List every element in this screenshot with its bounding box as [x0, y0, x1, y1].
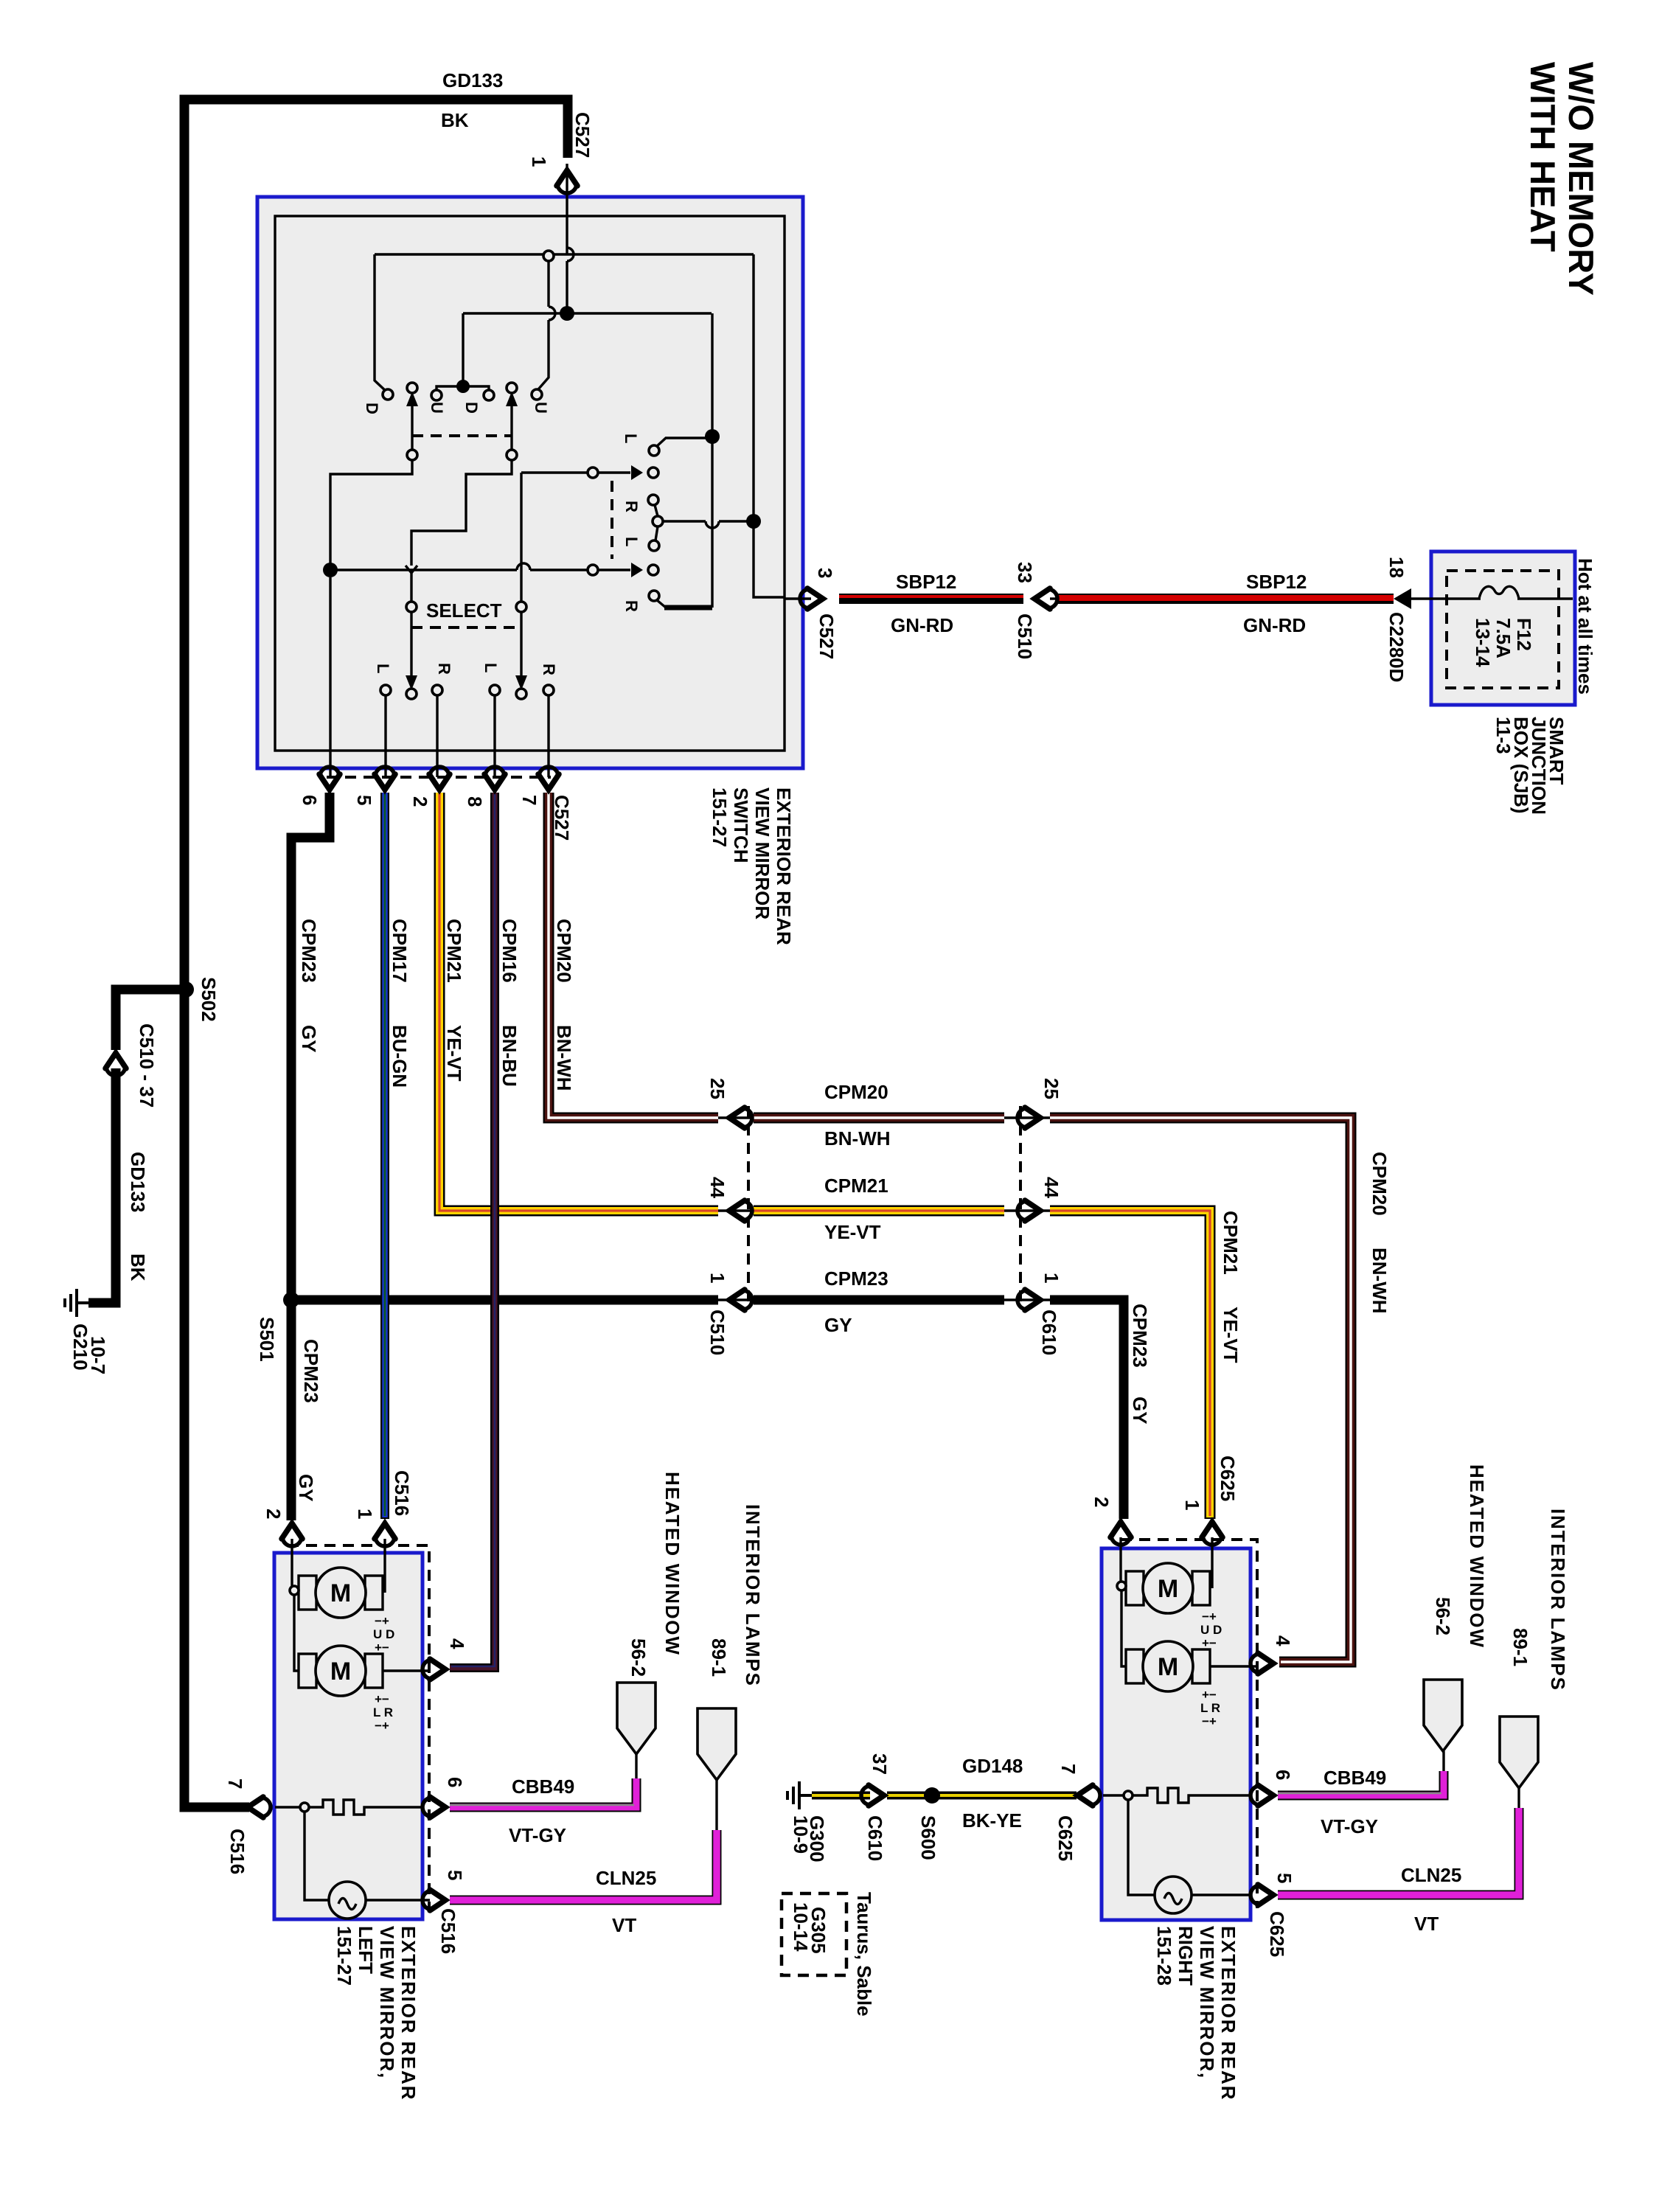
svg-text:10-9: 10-9 — [790, 1815, 812, 1854]
svg-text:BU-GN: BU-GN — [389, 1025, 411, 1088]
svg-text:S502: S502 — [198, 977, 220, 1022]
svg-text:HEATED WINDOW: HEATED WINDOW — [1466, 1464, 1488, 1649]
svg-text:25: 25 — [1040, 1078, 1062, 1099]
svg-text:8: 8 — [464, 796, 486, 807]
exterior rear view mirror switch box — [257, 197, 803, 768]
svg-text:VT-GY: VT-GY — [509, 1824, 566, 1846]
svg-text:BN-WH: BN-WH — [553, 1025, 575, 1091]
svg-text:GN-RD: GN-RD — [891, 614, 953, 636]
wire GD148 BK-YE ground G300 to S600 — [787, 1781, 812, 1809]
svg-text:7.5A: 7.5A — [1492, 618, 1514, 658]
thin wire rail A contact to U2 — [547, 261, 549, 307]
bridge U1-D2 — [437, 386, 489, 391]
svg-text:+−: +− — [375, 1692, 389, 1706]
svg-text:R: R — [540, 664, 558, 675]
svg-text:EXTERIOR REAR: EXTERIOR REAR — [397, 1926, 420, 2101]
wire CPM23 GY horizontal run to right mirror — [291, 1295, 718, 1305]
motor terminal contact — [290, 1586, 299, 1595]
svg-text:BK: BK — [127, 1253, 149, 1281]
pivot contact rail E — [653, 516, 663, 526]
svg-text:S600: S600 — [917, 1815, 939, 1860]
svg-text:CPM20: CPM20 — [1368, 1152, 1391, 1216]
svg-text:WITH HEAT: WITH HEAT — [1523, 62, 1562, 252]
smart junction box SJB — [1431, 552, 1575, 705]
L upper contact and lever — [649, 445, 659, 456]
heated window lamp symbol left — [617, 1683, 655, 1754]
svg-text:CPM20: CPM20 — [824, 1081, 888, 1103]
junction chevron at rail D — [406, 566, 417, 573]
svg-text:2: 2 — [1091, 1497, 1113, 1507]
svg-text:C625: C625 — [1217, 1455, 1239, 1501]
svg-text:151-27: 151-27 — [709, 787, 731, 847]
svg-text:C625: C625 — [1266, 1911, 1288, 1957]
hop over rail B — [549, 307, 555, 320]
L lower contact and lever — [649, 540, 659, 551]
wire select right stem / upper branch — [520, 473, 522, 602]
R upper contact and lever — [648, 495, 658, 505]
gang dashed row1 — [412, 434, 512, 437]
svg-text:151-28: 151-28 — [1153, 1926, 1175, 1986]
svg-text:U: U — [532, 402, 550, 414]
contact on rail A — [543, 251, 554, 261]
svg-text:CLN25: CLN25 — [1401, 1864, 1461, 1886]
svg-text:C510: C510 — [1014, 613, 1036, 659]
svg-text:6: 6 — [444, 1777, 466, 1787]
svg-text:4: 4 — [1272, 1635, 1294, 1646]
connector C625 pin2 — [1110, 1522, 1131, 1545]
svg-text:11-3: 11-3 — [1492, 717, 1514, 754]
svg-text:INTERIOR LAMPS: INTERIOR LAMPS — [742, 1504, 764, 1687]
svg-text:L: L — [622, 434, 640, 443]
svg-text:SBP12: SBP12 — [1246, 571, 1307, 593]
svg-text:56-2: 56-2 — [1432, 1597, 1454, 1635]
feed rail B to bridge — [462, 313, 464, 386]
svg-text:W/O MEMORY: W/O MEMORY — [1562, 62, 1601, 296]
motor U-D right — [1126, 1563, 1210, 1613]
svg-text:L R: L R — [373, 1705, 393, 1719]
svg-text:EXTERIOR REAR: EXTERIOR REAR — [773, 787, 795, 945]
svg-text:C527: C527 — [571, 112, 594, 158]
svg-text:GD148: GD148 — [962, 1755, 1023, 1777]
wire SBP12 GN-RD switch pin3 to C510 — [784, 597, 811, 599]
junction pin1 feed to rail B — [560, 306, 574, 321]
connector C527 pin1 top — [557, 170, 577, 193]
motor L-R right — [1126, 1641, 1210, 1691]
wiper stem contacts — [407, 450, 417, 460]
vertical link L-upper to R-lower — [711, 313, 713, 608]
wire CPM21 YE-VT switch pin2 to right mirror pin1 — [439, 793, 718, 1211]
svg-text:U D: U D — [1200, 1623, 1222, 1637]
svg-text:C510 - 37: C510 - 37 — [136, 1023, 158, 1107]
svg-text:C610: C610 — [1038, 1310, 1060, 1355]
svg-text:RIGHT: RIGHT — [1175, 1926, 1197, 1986]
svg-text:−+: −+ — [375, 1614, 389, 1628]
svg-text:GY: GY — [824, 1314, 852, 1336]
svg-text:33: 33 — [1014, 562, 1036, 583]
svg-text:BN-WH: BN-WH — [824, 1127, 891, 1150]
wire CBB49 VT-GY right mirror pin6 to heated window lamp — [1278, 1771, 1444, 1795]
svg-text:LEFT: LEFT — [355, 1926, 377, 1974]
svg-text:GD133: GD133 — [442, 69, 503, 91]
staircase wiper2 to select left — [411, 460, 512, 566]
wire CPM16 BN-BU switch pin8 to left mirror pin4 — [450, 793, 495, 1668]
svg-text:10-7: 10-7 — [87, 1336, 109, 1374]
connector C610 pin37 — [861, 1785, 884, 1806]
in-line connector C510 dashed — [747, 1106, 750, 1305]
wiper arrows row1 — [406, 392, 418, 406]
heater resistor right — [1103, 1794, 1124, 1796]
svg-text:HEATED WINDOW: HEATED WINDOW — [661, 1472, 684, 1656]
wire CBB49 VT-GY left mirror pin6 to heated window lamp — [450, 1778, 636, 1807]
svg-text:CPM23: CPM23 — [298, 919, 320, 983]
svg-text:C527: C527 — [815, 613, 838, 659]
splice S600 — [924, 1787, 940, 1804]
svg-text:VIEW MIRROR,: VIEW MIRROR, — [1196, 1926, 1218, 2079]
svg-text:6: 6 — [299, 795, 321, 805]
motor L-R left — [299, 1646, 383, 1696]
svg-text:CPM20: CPM20 — [553, 919, 575, 983]
splice S501 — [283, 1292, 299, 1308]
select gang dashed vertical — [611, 481, 613, 559]
svg-text:13-14: 13-14 — [1472, 618, 1494, 667]
svg-text:2: 2 — [409, 796, 431, 807]
svg-text:D: D — [462, 402, 481, 414]
svg-text:L: L — [622, 537, 641, 546]
svg-text:44: 44 — [706, 1177, 728, 1198]
svg-text:CPM23: CPM23 — [300, 1339, 322, 1403]
svg-text:C510: C510 — [706, 1310, 728, 1355]
rail D wiper arrow — [588, 565, 598, 575]
wire SBP12 GN-RD C510 to SJB C2280D — [1050, 597, 1057, 599]
svg-text:+−: +− — [1202, 1688, 1217, 1702]
svg-text:−+: −+ — [1202, 1714, 1217, 1728]
select wiper contacts — [406, 602, 417, 612]
staircase wiper1 to rail D — [330, 460, 412, 570]
svg-text:VIEW MIRROR: VIEW MIRROR — [751, 787, 773, 919]
svg-text:25: 25 — [706, 1078, 728, 1099]
wire CPM23 GY from switch pin6 to S501 — [291, 793, 330, 1300]
svg-text:BN-BU: BN-BU — [498, 1025, 521, 1087]
svg-text:151-27: 151-27 — [333, 1926, 355, 1986]
connector C527 switch pins 6 5 2 8 7 — [327, 776, 551, 779]
svg-text:5: 5 — [444, 1870, 466, 1880]
pin6 drop — [329, 577, 331, 777]
in-line connector C610 dashed — [1019, 1106, 1022, 1305]
rail E hop — [706, 521, 719, 528]
svg-text:89-1: 89-1 — [708, 1638, 730, 1677]
svg-text:CBB49: CBB49 — [512, 1775, 574, 1798]
svg-text:44: 44 — [1040, 1177, 1062, 1198]
svg-text:BK: BK — [441, 109, 469, 131]
exterior rear view mirror right box — [1102, 1548, 1251, 1920]
svg-text:R: R — [622, 501, 641, 512]
wire pin2 to motor UD — [291, 1539, 293, 1586]
indicator bulb right — [1128, 1800, 1155, 1895]
svg-text:CPM16: CPM16 — [498, 919, 521, 983]
svg-text:BN-WH: BN-WH — [1368, 1248, 1391, 1314]
switch contacts row1 — [383, 389, 393, 400]
svg-text:VT: VT — [1414, 1913, 1439, 1935]
svg-text:7: 7 — [1057, 1764, 1079, 1774]
svg-text:+−: +− — [375, 1641, 389, 1655]
svg-text:F12: F12 — [1513, 618, 1535, 651]
connector C516 dashed boundary left mirror — [288, 1545, 429, 1910]
wire CLN25 VT left mirror pin5 to interior lamps — [450, 1830, 717, 1900]
rail B — [463, 312, 712, 314]
pin1 feed wire with hop over rail A — [567, 248, 574, 261]
svg-text:5: 5 — [353, 795, 375, 805]
svg-text:CPM23: CPM23 — [824, 1267, 888, 1290]
svg-text:VT-GY: VT-GY — [1321, 1815, 1378, 1837]
motor terminal contact — [1117, 1582, 1126, 1590]
svg-text:+−: +− — [1202, 1636, 1217, 1650]
wire CPM20 BN-WH switch pin7 to right mirror pin4 — [549, 793, 718, 1118]
svg-text:7: 7 — [518, 795, 540, 805]
svg-text:U: U — [428, 402, 446, 414]
svg-text:C527: C527 — [551, 795, 573, 841]
rail D — [330, 568, 517, 571]
svg-text:SWITCH: SWITCH — [730, 787, 752, 863]
Taurus Sable dashed box — [782, 1893, 846, 1975]
svg-text:L: L — [481, 663, 500, 672]
heated window lamp symbol right — [1424, 1680, 1462, 1751]
wire pin2 to motor UD — [1119, 1537, 1121, 1582]
svg-text:R: R — [435, 663, 453, 675]
svg-text:1: 1 — [1181, 1500, 1203, 1510]
svg-text:56-2: 56-2 — [627, 1638, 650, 1677]
rail A right leg down to rail E and out to pin3 — [754, 254, 784, 597]
row2 contact drops to pins — [386, 695, 549, 777]
connector C510 pin33 — [1034, 588, 1057, 609]
connector C516 pin7 — [248, 1797, 271, 1818]
SJB inner dashed border — [1447, 571, 1559, 688]
svg-text:CBB49: CBB49 — [1324, 1767, 1386, 1789]
svg-text:L: L — [374, 664, 392, 673]
rail D hop over select right stem — [517, 563, 530, 570]
svg-text:C2280D: C2280D — [1385, 612, 1408, 682]
C510 chevrons pins 25 44 1 — [729, 1107, 752, 1128]
svg-text:GD133: GD133 — [127, 1152, 149, 1212]
svg-text:89-1: 89-1 — [1509, 1628, 1531, 1666]
ground G210 — [65, 1289, 89, 1317]
svg-text:SELECT: SELECT — [426, 599, 502, 622]
svg-text:SBP12: SBP12 — [896, 571, 956, 593]
interior lamps symbol left — [698, 1708, 736, 1780]
splice S502 — [178, 981, 194, 998]
exterior rear view mirror left box — [274, 1553, 422, 1919]
svg-text:GY: GY — [298, 1025, 320, 1053]
svg-text:CPM21: CPM21 — [824, 1175, 888, 1197]
svg-text:6: 6 — [1272, 1770, 1294, 1780]
svg-text:C610: C610 — [864, 1815, 886, 1861]
svg-text:INTERIOR LAMPS: INTERIOR LAMPS — [1547, 1509, 1569, 1691]
svg-text:CLN25: CLN25 — [596, 1867, 656, 1889]
wire pin1 to motor UD right — [1211, 1537, 1213, 1588]
connector C516 pin2 — [282, 1523, 302, 1546]
wire CPM23 GY S501 to left mirror pin2 — [287, 1300, 296, 1520]
svg-text:Hot at all times: Hot at all times — [1574, 558, 1596, 695]
R lower contact and lever to bar — [649, 591, 659, 601]
wire CLN25 VT right mirror pin5 to interior lamps — [1278, 1808, 1519, 1895]
svg-text:GN-RD: GN-RD — [1243, 614, 1306, 636]
svg-text:1: 1 — [706, 1273, 728, 1283]
connector C527 pin3 — [800, 588, 823, 609]
connector C625 pin1 — [1202, 1522, 1222, 1545]
wire motor UD to motor LR — [1121, 1590, 1126, 1666]
wire CPM17 BU-GN switch pin5 to left mirror pin1 — [380, 793, 389, 1519]
wire pin1 to motor UD right — [383, 1539, 386, 1593]
wire GD133 BK top/left long run — [184, 100, 568, 1807]
svg-text:D: D — [363, 403, 381, 414]
svg-text:CPM21: CPM21 — [1220, 1211, 1242, 1275]
svg-text:18: 18 — [1385, 557, 1408, 578]
wire S502 branch to G210 — [116, 990, 186, 1050]
svg-text:GY: GY — [295, 1474, 317, 1502]
wire C510-37 to ground G210 — [88, 1068, 116, 1303]
svg-text:S501: S501 — [256, 1317, 278, 1362]
svg-text:YE-VT: YE-VT — [824, 1221, 881, 1243]
rail A — [375, 253, 754, 255]
svg-text:U D: U D — [373, 1627, 394, 1641]
switch inner border — [275, 216, 785, 751]
select dashed gang — [411, 626, 521, 629]
svg-text:10-14: 10-14 — [790, 1902, 812, 1952]
svg-text:C516: C516 — [391, 1470, 413, 1516]
interior lamps symbol right — [1500, 1717, 1538, 1788]
svg-text:1: 1 — [1040, 1273, 1062, 1283]
connector C625 dashed boundary right mirror — [1121, 1540, 1257, 1908]
svg-text:C625: C625 — [1054, 1815, 1077, 1861]
svg-text:CPM21: CPM21 — [443, 919, 465, 983]
svg-text:−+: −+ — [375, 1719, 389, 1733]
svg-text:YE-VT: YE-VT — [1220, 1307, 1242, 1363]
svg-text:1: 1 — [528, 156, 550, 167]
svg-text:2: 2 — [262, 1509, 285, 1519]
svg-text:CPM17: CPM17 — [389, 919, 411, 983]
svg-text:5: 5 — [1273, 1873, 1295, 1883]
fuse F12 7.5A — [1479, 586, 1519, 599]
svg-text:BK-YE: BK-YE — [962, 1809, 1022, 1832]
svg-text:C516: C516 — [437, 1908, 459, 1954]
svg-text:Taurus, Sable: Taurus, Sable — [853, 1892, 875, 2017]
svg-text:L R: L R — [1200, 1701, 1220, 1715]
svg-text:R: R — [622, 600, 641, 612]
svg-text:GY: GY — [1129, 1397, 1151, 1425]
svg-text:C516: C516 — [226, 1829, 248, 1874]
svg-text:VIEW MIRROR,: VIEW MIRROR, — [376, 1926, 398, 2079]
connector C510-37 on S502 branch — [105, 1053, 126, 1076]
svg-text:7: 7 — [224, 1778, 246, 1789]
connector C516 pin1 — [375, 1523, 395, 1546]
svg-text:−+: −+ — [1202, 1610, 1217, 1624]
svg-text:3: 3 — [814, 568, 836, 578]
motor U-D left — [299, 1568, 383, 1618]
svg-text:EXTERIOR REAR: EXTERIOR REAR — [1217, 1926, 1239, 2101]
svg-text:4: 4 — [446, 1638, 468, 1649]
svg-text:YE-VT: YE-VT — [443, 1025, 465, 1082]
svg-text:37: 37 — [869, 1753, 891, 1775]
svg-text:1: 1 — [354, 1509, 376, 1519]
wire motor LR to pin4 — [383, 1669, 430, 1672]
C610 chevrons pins 25 44 1 — [1018, 1107, 1040, 1128]
connector C625 pin7 right mirror — [1077, 1785, 1100, 1806]
select stems and down arrows — [410, 612, 412, 677]
indicator bulb left — [305, 1812, 330, 1900]
svg-text:VT: VT — [612, 1914, 636, 1936]
feed wire rail A to D1 — [375, 254, 386, 392]
wire motor LR to pin4 — [1210, 1665, 1258, 1667]
arrow into SJB C2280D pin18 — [1394, 588, 1411, 609]
rail E — [663, 520, 706, 522]
heater resistor left — [275, 1806, 300, 1808]
wire motor UD to motor LR — [294, 1595, 299, 1671]
row2 contacts — [380, 685, 391, 695]
svg-text:CPM23: CPM23 — [1129, 1304, 1151, 1368]
